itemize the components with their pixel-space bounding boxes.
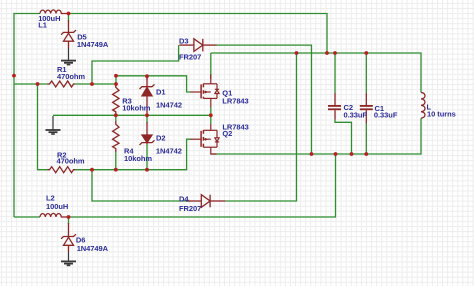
svg-text:Q2: Q2 <box>222 129 232 138</box>
svg-text:10kohm: 10kohm <box>124 154 152 163</box>
svg-text:470ohm: 470ohm <box>57 157 85 166</box>
svg-text:FR207: FR207 <box>179 204 201 213</box>
svg-text:D2: D2 <box>156 133 166 142</box>
svg-text:FR207: FR207 <box>179 52 201 61</box>
svg-text:470ohm: 470ohm <box>57 72 85 81</box>
svg-text:1N4742: 1N4742 <box>156 100 182 109</box>
svg-text:10kohm: 10kohm <box>122 103 150 112</box>
svg-text:L1: L1 <box>38 21 47 30</box>
svg-text:10 turns: 10 turns <box>427 109 456 118</box>
svg-text:1N4749A: 1N4749A <box>77 40 109 49</box>
svg-text:D3: D3 <box>179 37 189 46</box>
svg-text:LR7843: LR7843 <box>222 96 248 105</box>
svg-text:D4: D4 <box>179 195 189 204</box>
svg-text:1N4749A: 1N4749A <box>77 244 109 253</box>
svg-text:1N4742: 1N4742 <box>156 146 182 155</box>
svg-text:D1: D1 <box>156 88 166 97</box>
svg-text:0.33uF: 0.33uF <box>374 110 398 119</box>
svg-text:100uH: 100uH <box>46 202 68 211</box>
svg-text:D6: D6 <box>76 235 86 244</box>
svg-text:0.33uF: 0.33uF <box>344 111 368 120</box>
